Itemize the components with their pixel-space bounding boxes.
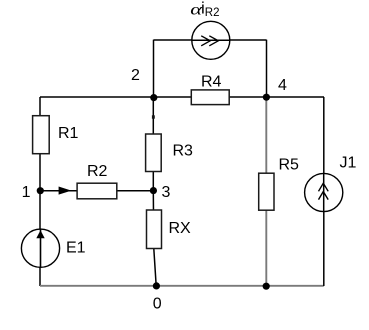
svg-text:R5: R5	[279, 157, 300, 174]
svg-text:R2: R2	[205, 7, 220, 19]
node 2 label	[131, 67, 140, 84]
svg-text:R4: R4	[201, 73, 222, 90]
current source J1	[305, 155, 357, 212]
wire: node1 to node3 horizontal y=191	[40, 190, 153, 192]
wire: main horizontal rail y=97 from left rail through node2, R4, node4 to right rail	[40, 96, 324, 98]
node 3 junction dot	[150, 187, 157, 194]
voltage source E1	[21, 229, 85, 267]
node 4 junction dot	[263, 94, 270, 101]
node 1 label	[22, 184, 31, 201]
svg-text:RX: RX	[169, 220, 192, 237]
resistor R3	[146, 134, 193, 172]
resistor R5	[259, 157, 299, 211]
svg-text:1: 1	[22, 184, 31, 201]
node 2 junction dot	[150, 94, 157, 101]
svg-text:0: 0	[153, 296, 162, 313]
svg-text:R3: R3	[173, 143, 194, 160]
label alpha*i_R2	[190, 0, 219, 19]
wire: right rail through J1	[323, 97, 325, 286]
current direction arrow on wire 1-3	[59, 187, 72, 195]
wire: node2 up to top loop	[153, 40, 155, 97]
dependent current source alpha*i_R2 circle symbol	[192, 21, 230, 59]
resistor R4	[191, 73, 229, 104]
wire: left rail node1 column (40,97)-(40,286)	[39, 97, 41, 286]
svg-text:3: 3	[162, 184, 171, 201]
resistor R2	[77, 163, 117, 199]
node 4 label	[278, 77, 287, 94]
node 0 junction dot	[153, 282, 160, 289]
svg-text:2: 2	[131, 67, 140, 84]
svg-text:E1: E1	[66, 240, 86, 257]
svg-text:R2: R2	[87, 163, 108, 180]
wire: bottom rail y=286	[40, 285, 324, 287]
wire: node3 down through RX to node0	[153, 191, 156, 286]
node 0 label	[153, 296, 162, 313]
junction dot bottom right (R5 column to bottom rail)	[263, 283, 270, 290]
svg-text:J1: J1	[340, 155, 357, 172]
wire: node2 down through R3 to node3	[152, 97, 155, 191]
wire: top loop horizontal through dependent source	[154, 39, 267, 41]
node 3 label	[162, 184, 171, 201]
resistor R1	[33, 116, 79, 154]
node 1 junction dot	[37, 187, 44, 194]
resistor RX	[147, 210, 192, 249]
wire: top loop right vertical down to node4	[266, 40, 268, 97]
svg-text:4: 4	[278, 77, 287, 94]
svg-text:R1: R1	[58, 125, 79, 142]
wire: node4 down through R5 to bottom rail	[265, 97, 267, 286]
